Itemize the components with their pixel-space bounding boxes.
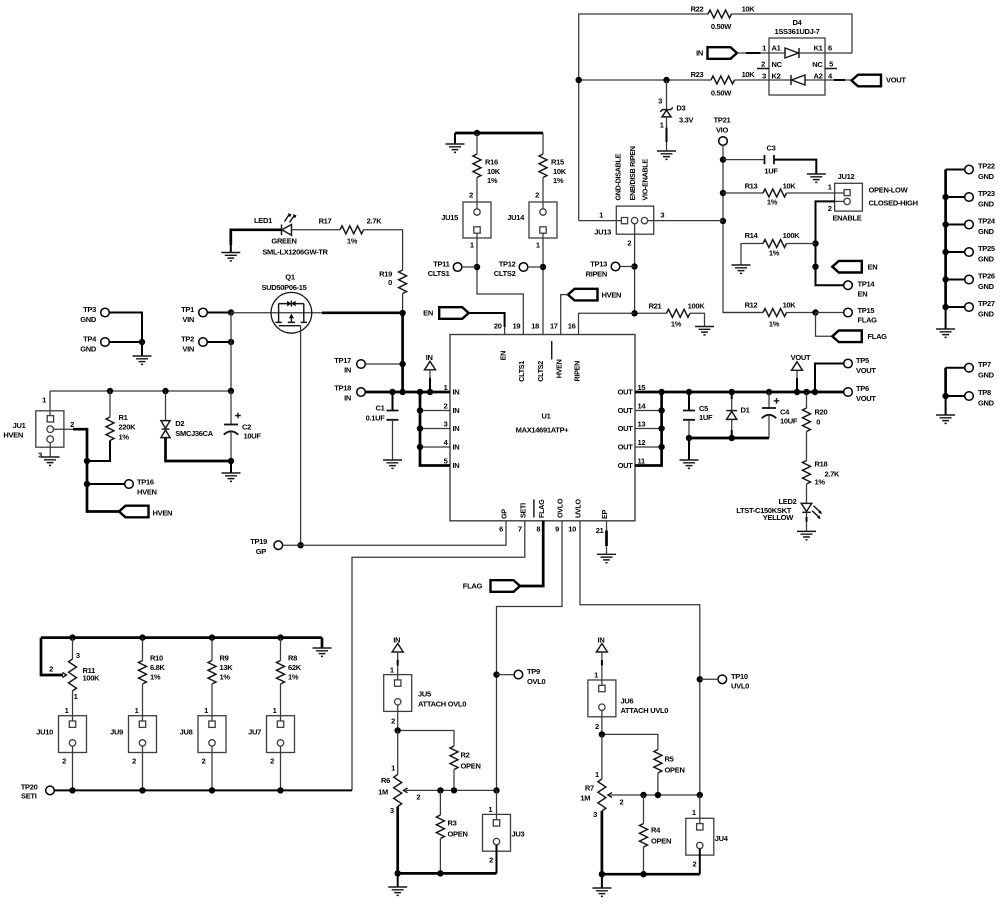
svg-text:GND: GND (978, 172, 995, 181)
svg-text:10UF: 10UF (244, 432, 262, 441)
svg-text:1: 1 (660, 120, 664, 129)
svg-text:FLAG: FLAG (537, 499, 546, 518)
svg-text:HVEN: HVEN (137, 487, 157, 496)
svg-text:VIO: VIO (716, 126, 728, 135)
svg-text:R8: R8 (288, 654, 297, 663)
svg-text:NC: NC (812, 60, 823, 69)
svg-text:TP14: TP14 (858, 280, 876, 289)
svg-text:1: 1 (391, 764, 395, 773)
svg-text:TP18: TP18 (334, 384, 351, 393)
svg-text:TP17: TP17 (334, 356, 351, 365)
svg-text:U1: U1 (542, 412, 551, 421)
svg-text:2: 2 (535, 191, 539, 200)
svg-text:TP23: TP23 (978, 189, 995, 198)
svg-text:100K: 100K (783, 231, 801, 240)
svg-text:1%: 1% (150, 672, 161, 681)
svg-text:K2: K2 (772, 72, 781, 81)
svg-text:FLAG: FLAG (868, 332, 888, 341)
svg-text:TP21: TP21 (714, 116, 731, 125)
svg-text:TP6: TP6 (856, 384, 869, 393)
svg-text:OPEN-LOW: OPEN-LOW (869, 186, 909, 195)
svg-text:2: 2 (469, 191, 473, 200)
svg-text:GND: GND (978, 370, 995, 379)
svg-text:TP26: TP26 (978, 272, 995, 281)
svg-text:1UF: 1UF (699, 413, 713, 422)
svg-text:1: 1 (595, 770, 599, 779)
svg-text:2: 2 (489, 856, 493, 865)
svg-text:HVEN: HVEN (153, 508, 173, 517)
svg-text:16: 16 (568, 322, 576, 331)
svg-text:3: 3 (658, 96, 662, 105)
svg-text:10K: 10K (742, 70, 756, 79)
svg-text:LED2: LED2 (779, 497, 797, 506)
svg-text:1: 1 (536, 241, 540, 250)
svg-text:12: 12 (638, 438, 646, 447)
svg-text:C5: C5 (699, 404, 708, 413)
svg-text:21: 21 (596, 526, 604, 535)
svg-text:ENB/DISB RIPEN: ENB/DISB RIPEN (628, 146, 637, 200)
svg-text:1: 1 (599, 211, 603, 220)
svg-text:ENABLE: ENABLE (832, 213, 861, 222)
svg-text:C2: C2 (242, 423, 251, 432)
svg-text:GND: GND (978, 200, 995, 209)
svg-text:R13: R13 (745, 182, 758, 191)
svg-text:JU9: JU9 (110, 728, 123, 737)
svg-text:2: 2 (828, 204, 832, 213)
svg-text:MAX14691ATP+: MAX14691ATP+ (516, 425, 570, 434)
svg-text:IN: IN (393, 635, 400, 644)
svg-text:100K: 100K (83, 673, 101, 682)
svg-text:2.7K: 2.7K (367, 217, 383, 226)
svg-text:1: 1 (470, 241, 474, 250)
svg-text:C4: C4 (780, 408, 790, 417)
svg-text:A2: A2 (814, 72, 823, 81)
svg-text:CLTS2: CLTS2 (494, 269, 516, 278)
svg-text:SMCJ36CA: SMCJ36CA (175, 429, 213, 438)
svg-text:TP27: TP27 (978, 299, 995, 308)
svg-text:LED1: LED1 (254, 216, 272, 225)
svg-text:1%: 1% (487, 176, 498, 185)
svg-text:TP9: TP9 (527, 667, 540, 676)
svg-text:2: 2 (416, 792, 420, 801)
svg-text:HVEN: HVEN (555, 359, 564, 378)
svg-text:5: 5 (829, 60, 833, 69)
svg-text:1%: 1% (119, 432, 130, 441)
svg-text:JU12: JU12 (838, 172, 855, 181)
svg-text:2: 2 (70, 420, 74, 429)
svg-text:HVEN: HVEN (3, 431, 23, 440)
svg-text:R10: R10 (150, 654, 163, 663)
svg-text:R20: R20 (815, 408, 828, 417)
svg-text:EN: EN (858, 289, 868, 298)
svg-text:10: 10 (568, 525, 576, 534)
svg-text:IN: IN (453, 406, 460, 415)
svg-text:TP7: TP7 (978, 360, 991, 369)
svg-text:OPEN: OPEN (651, 836, 671, 845)
svg-text:14: 14 (638, 402, 647, 411)
svg-text:JU1: JU1 (13, 421, 26, 430)
svg-text:VIO-ENABLE: VIO-ENABLE (641, 159, 650, 201)
svg-text:1: 1 (488, 805, 492, 814)
svg-text:OUT: OUT (618, 443, 634, 452)
svg-text:UVLO: UVLO (574, 499, 583, 518)
svg-text:10K: 10K (783, 301, 797, 310)
svg-text:1UF: 1UF (764, 167, 778, 176)
svg-text:YELLOW: YELLOW (763, 513, 795, 522)
svg-text:IN: IN (598, 635, 605, 644)
svg-text:1: 1 (828, 183, 832, 192)
svg-text:TP13: TP13 (590, 260, 607, 269)
svg-text:JU8: JU8 (180, 728, 193, 737)
svg-text:OUT: OUT (618, 424, 634, 433)
svg-text:R18: R18 (815, 460, 828, 469)
svg-text:OVL0: OVL0 (527, 677, 546, 686)
svg-text:13K: 13K (220, 663, 234, 672)
svg-text:CLTS2: CLTS2 (536, 361, 545, 382)
svg-text:1: 1 (74, 692, 78, 701)
svg-text:ATTACH OVL0: ATTACH OVL0 (418, 699, 466, 708)
svg-text:2: 2 (62, 756, 66, 765)
svg-text:VOUT: VOUT (856, 394, 876, 403)
svg-text:GP: GP (500, 509, 509, 519)
svg-text:OPEN: OPEN (665, 765, 685, 774)
svg-text:OVLO: OVLO (556, 498, 565, 518)
svg-text:1: 1 (273, 706, 277, 715)
svg-text:SUD50P06-15: SUD50P06-15 (261, 283, 306, 292)
svg-text:1: 1 (762, 44, 766, 53)
svg-text:JU5: JU5 (418, 689, 431, 698)
svg-text:R21: R21 (649, 302, 662, 311)
svg-text:1%: 1% (769, 320, 780, 329)
svg-text:4: 4 (828, 72, 833, 81)
svg-text:R2: R2 (461, 751, 470, 760)
svg-text:VIN: VIN (182, 315, 194, 324)
svg-text:0.50W: 0.50W (711, 89, 732, 98)
svg-text:R23: R23 (691, 70, 704, 79)
svg-text:D3: D3 (676, 103, 685, 112)
svg-text:2: 2 (692, 859, 696, 868)
svg-text:3.3V: 3.3V (679, 115, 694, 124)
svg-text:TP2: TP2 (181, 335, 194, 344)
svg-text:TP3: TP3 (83, 305, 96, 314)
svg-text:JU7: JU7 (248, 728, 261, 737)
svg-text:R14: R14 (745, 231, 759, 240)
svg-text:1%: 1% (347, 237, 358, 246)
svg-text:ATTACH UVL0: ATTACH UVL0 (621, 706, 669, 715)
svg-text:220K: 220K (119, 422, 137, 431)
svg-text:2: 2 (270, 756, 274, 765)
svg-text:3: 3 (444, 420, 448, 429)
svg-text:1%: 1% (288, 672, 299, 681)
svg-text:TP15: TP15 (858, 306, 875, 315)
svg-text:1%: 1% (767, 198, 778, 207)
svg-text:1SS361UDJ-7: 1SS361UDJ-7 (774, 27, 819, 36)
svg-text:TP25: TP25 (978, 244, 995, 253)
svg-text:D4: D4 (793, 18, 803, 27)
svg-text:IN: IN (344, 366, 351, 375)
svg-text:2: 2 (49, 665, 53, 674)
svg-text:R5: R5 (665, 755, 674, 764)
svg-text:R17: R17 (319, 217, 332, 226)
svg-text:2: 2 (202, 756, 206, 765)
svg-text:2: 2 (444, 402, 448, 411)
svg-text:13: 13 (638, 420, 646, 429)
svg-text:2: 2 (619, 797, 623, 806)
svg-text:R1: R1 (119, 413, 128, 422)
svg-text:SETI: SETI (518, 503, 527, 518)
svg-text:CLTS1: CLTS1 (428, 269, 450, 278)
svg-text:OPEN: OPEN (461, 761, 481, 770)
svg-text:TP19: TP19 (250, 537, 267, 546)
svg-text:R7: R7 (585, 784, 594, 793)
svg-text:1%: 1% (220, 672, 231, 681)
svg-text:VOUT: VOUT (886, 76, 906, 85)
svg-text:2.7K: 2.7K (825, 469, 841, 478)
svg-text:6: 6 (499, 525, 503, 534)
svg-text:R9: R9 (220, 654, 229, 663)
svg-text:EP: EP (600, 510, 609, 519)
svg-text:JU15: JU15 (441, 213, 458, 222)
svg-text:1%: 1% (553, 176, 564, 185)
svg-text:R6: R6 (381, 776, 390, 785)
svg-text:R4: R4 (651, 826, 661, 835)
svg-text:GREEN: GREEN (271, 236, 296, 245)
svg-text:2: 2 (627, 239, 631, 248)
svg-text:IN: IN (426, 353, 433, 362)
svg-text:GND-DISABLE: GND-DISABLE (614, 153, 623, 200)
svg-text:18: 18 (531, 322, 539, 331)
svg-text:IN: IN (696, 49, 703, 58)
svg-text:3: 3 (76, 651, 80, 660)
svg-text:JU14: JU14 (507, 213, 525, 222)
svg-text:SML-LX1206GW-TR: SML-LX1206GW-TR (262, 248, 328, 257)
svg-text:GND: GND (978, 282, 995, 291)
svg-text:4: 4 (444, 438, 449, 447)
svg-text:FLAG: FLAG (858, 316, 878, 325)
svg-text:1%: 1% (769, 249, 780, 258)
svg-text:3: 3 (660, 211, 664, 220)
svg-text:7: 7 (518, 525, 522, 534)
svg-text:TP5: TP5 (856, 356, 869, 365)
svg-text:JU6: JU6 (621, 696, 634, 705)
svg-text:VOUT: VOUT (856, 366, 876, 375)
svg-text:C3: C3 (767, 144, 776, 153)
svg-text:TP20: TP20 (21, 783, 38, 792)
svg-text:6: 6 (828, 44, 832, 53)
svg-text:0.1UF: 0.1UF (366, 413, 386, 422)
svg-text:10K: 10K (487, 167, 501, 176)
svg-text:8: 8 (536, 525, 540, 534)
svg-text:R3: R3 (448, 819, 457, 828)
svg-text:R16: R16 (485, 158, 498, 167)
svg-text:RIPEN: RIPEN (572, 361, 581, 382)
svg-text:1: 1 (204, 706, 208, 715)
svg-text:1: 1 (390, 665, 394, 674)
svg-text:19: 19 (513, 322, 521, 331)
svg-text:R12: R12 (745, 301, 758, 310)
svg-text:OUT: OUT (618, 406, 634, 415)
svg-text:EN: EN (868, 262, 878, 271)
svg-text:1: 1 (594, 670, 598, 679)
svg-text:IN: IN (344, 393, 351, 402)
svg-text:FLAG: FLAG (463, 582, 483, 591)
svg-text:100K: 100K (688, 302, 706, 311)
svg-text:GND: GND (978, 227, 995, 236)
svg-text:GND: GND (80, 345, 97, 354)
svg-text:TP11: TP11 (433, 259, 449, 268)
svg-text:TP8: TP8 (978, 388, 991, 397)
svg-text:A1: A1 (772, 44, 781, 53)
svg-text:JU3: JU3 (512, 830, 525, 839)
svg-text:2: 2 (595, 722, 599, 731)
svg-text:1M: 1M (378, 788, 388, 797)
svg-text:3: 3 (38, 451, 42, 460)
svg-text:TP24: TP24 (978, 217, 996, 226)
svg-text:1M: 1M (580, 793, 590, 802)
svg-text:OUT: OUT (618, 388, 634, 397)
svg-text:K1: K1 (814, 44, 823, 53)
svg-text:17: 17 (550, 322, 558, 331)
svg-text:C1: C1 (376, 404, 385, 413)
svg-text:HVEN: HVEN (602, 290, 622, 299)
svg-text:10K: 10K (783, 182, 797, 191)
svg-text:D1: D1 (741, 406, 750, 415)
svg-text:1%: 1% (815, 478, 826, 487)
svg-text:2: 2 (761, 60, 765, 69)
svg-text:TP10: TP10 (731, 672, 748, 681)
svg-text:GND: GND (978, 255, 995, 264)
svg-text:10K: 10K (553, 167, 567, 176)
svg-text:3: 3 (762, 72, 766, 81)
svg-text:EN: EN (498, 351, 507, 360)
svg-text:TP4: TP4 (83, 335, 97, 344)
svg-text:62K: 62K (288, 663, 302, 672)
svg-text:OUT: OUT (618, 461, 634, 470)
svg-text:IN: IN (453, 443, 460, 452)
svg-text:IN: IN (453, 424, 460, 433)
svg-text:Q1: Q1 (285, 273, 295, 282)
svg-text:TP1: TP1 (181, 305, 194, 314)
svg-text:RIPEN: RIPEN (586, 269, 607, 278)
svg-text:3: 3 (390, 806, 394, 815)
svg-text:GND: GND (978, 310, 995, 319)
svg-text:R15: R15 (551, 158, 564, 167)
svg-text:IN: IN (453, 461, 460, 470)
svg-text:10K: 10K (742, 5, 756, 14)
svg-text:CLOSED-HIGH: CLOSED-HIGH (869, 199, 918, 208)
svg-text:2: 2 (132, 756, 136, 765)
svg-text:VOUT: VOUT (791, 353, 811, 362)
svg-text:NC: NC (772, 60, 783, 69)
svg-text:OPEN: OPEN (448, 829, 468, 838)
svg-text:GP: GP (256, 547, 267, 556)
svg-text:IN: IN (453, 388, 460, 397)
svg-text:D2: D2 (175, 419, 184, 428)
svg-text:JU13: JU13 (594, 228, 611, 237)
svg-text:JU10: JU10 (36, 728, 53, 737)
svg-text:0: 0 (816, 417, 820, 426)
svg-text:UVL0: UVL0 (731, 682, 749, 691)
svg-text:SETI: SETI (21, 791, 37, 800)
svg-text:3: 3 (593, 810, 597, 819)
svg-text:GND: GND (978, 399, 995, 408)
svg-text:1: 1 (65, 706, 69, 715)
svg-text:1: 1 (42, 396, 46, 405)
svg-text:R22: R22 (691, 5, 704, 14)
svg-text:20: 20 (494, 322, 502, 331)
svg-text:TP22: TP22 (978, 162, 995, 171)
svg-text:1: 1 (135, 706, 139, 715)
svg-text:GND: GND (80, 315, 97, 324)
svg-text:0.50W: 0.50W (711, 22, 732, 31)
svg-text:1: 1 (692, 808, 696, 817)
svg-text:10UF: 10UF (780, 416, 798, 425)
svg-text:9: 9 (555, 525, 559, 534)
svg-text:JU4: JU4 (715, 834, 729, 843)
svg-text:TP16: TP16 (137, 478, 154, 487)
svg-text:0: 0 (388, 278, 392, 287)
svg-text:VIN: VIN (182, 345, 194, 354)
svg-text:6.8K: 6.8K (150, 663, 166, 672)
svg-text:TP12: TP12 (499, 259, 516, 268)
svg-text:2: 2 (391, 716, 395, 725)
svg-text:1%: 1% (671, 320, 682, 329)
svg-text:EN: EN (423, 309, 433, 318)
svg-text:CLTS1: CLTS1 (517, 361, 526, 382)
